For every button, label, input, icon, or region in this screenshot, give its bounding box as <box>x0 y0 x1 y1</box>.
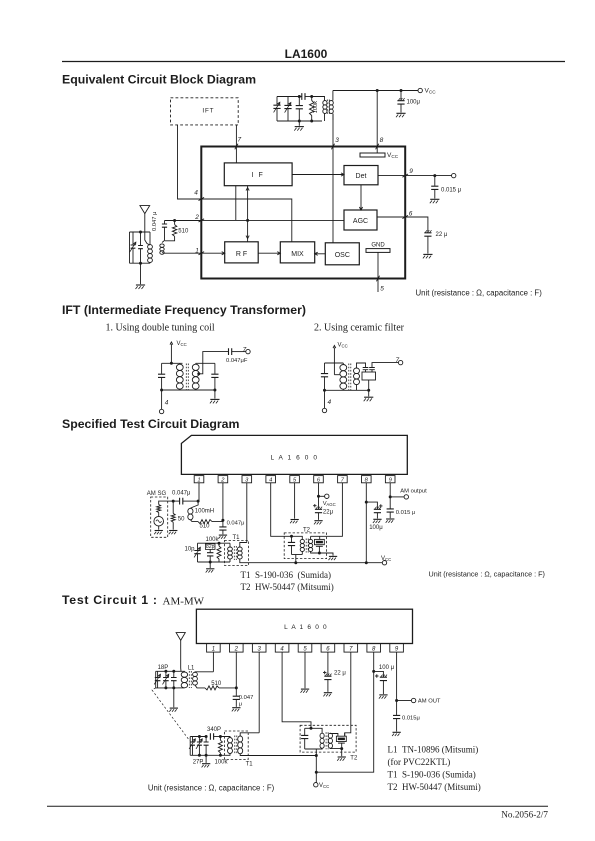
svg-text:1: 1 <box>197 477 200 483</box>
wire IF input drop <box>235 186 237 221</box>
svg-text:VCC: VCC <box>425 88 437 95</box>
pin 9 AM output (specified) <box>389 483 427 499</box>
pin 9 (specified test circuit) <box>385 476 395 484</box>
svg-text:Unit (resistance : Ω, capacita: Unit (resistance : Ω, capacitance : F) <box>429 570 545 579</box>
svg-text:Unit (resistance : Ω, capacita: Unit (resistance : Ω, capacitance : F) <box>148 784 275 793</box>
T2 to Vcc rail drop (specified) <box>295 555 297 563</box>
ground (antenna tank 1) <box>169 688 178 712</box>
footer rule <box>47 805 548 807</box>
svg-text:5: 5 <box>380 286 384 293</box>
svg-text:100k: 100k <box>206 537 220 543</box>
wire pin8: Vcc rail into IC <box>377 91 383 154</box>
svg-text:μ: μ <box>239 701 242 707</box>
arrow AGC to IF <box>246 186 249 221</box>
pin 6 (specified test circuit) <box>314 476 324 484</box>
svg-text:4: 4 <box>194 190 198 197</box>
antenna tank rails (test ckt 1) <box>156 670 178 672</box>
osc tank rails (specified) <box>198 542 231 544</box>
wire pin 4 to T2 (specified) <box>271 483 293 538</box>
T2 secondary (test ckt 1) <box>328 733 341 748</box>
wire pin3: osc tank to OSC block <box>333 114 339 243</box>
block OSC <box>325 243 359 265</box>
IFT dashed box <box>171 98 239 125</box>
svg-text:50: 50 <box>178 517 185 523</box>
svg-text:L1: L1 <box>188 665 195 671</box>
svg-text:0.047μF: 0.047μF <box>226 358 248 364</box>
T1 dashed box (specified) <box>224 535 248 565</box>
pin 6 (test circuit 1) <box>321 644 335 653</box>
capacitor 100u on Vcc rail <box>396 91 421 118</box>
capacitor 100u on pin 8 (test ckt 1) <box>374 665 395 698</box>
svg-text:9: 9 <box>409 168 413 175</box>
Vcc arrow (IFT ckt 2) <box>333 343 348 375</box>
svg-text:3: 3 <box>335 137 339 144</box>
svg-text:4: 4 <box>269 477 272 483</box>
pin 3 (test circuit 1) <box>252 644 266 653</box>
wire pin 1 down (test ckt 1) <box>212 652 214 672</box>
pin 9 (test circuit 1) <box>390 644 404 653</box>
resistor 100k (specified) <box>206 537 222 562</box>
oscillator tank rails <box>277 96 299 98</box>
resistor 510 (test ckt 1) <box>195 681 237 690</box>
pin 4 (test circuit 1) <box>275 644 289 653</box>
IFT1 transformer primary <box>176 363 183 390</box>
capacitor 27p (osc tank 1) <box>193 735 209 766</box>
T2 dashed box (test ckt 1) <box>300 725 358 761</box>
ceramic resonator (T2, specified) <box>315 536 325 554</box>
svg-text:0.047: 0.047 <box>239 695 254 701</box>
block AGC <box>344 210 377 230</box>
svg-text:100μ: 100μ <box>369 525 383 531</box>
svg-text:22μ: 22μ <box>323 510 334 516</box>
svg-text:4: 4 <box>165 400 169 407</box>
ground (antenna tank) <box>136 263 146 289</box>
wire pin5: GND bar out of IC <box>378 252 384 292</box>
pin 4 terminal (IFT ckt 1) <box>159 390 168 414</box>
series capacitor 0.047u (AM SG) <box>172 491 198 505</box>
svg-text:0.015μ: 0.015μ <box>402 716 420 722</box>
antenna coil secondary <box>160 244 164 254</box>
svg-text:8: 8 <box>372 646 376 652</box>
pin 8 (specified test circuit) <box>362 476 372 484</box>
capacitor 22u on pin 6 (specified) <box>313 496 333 524</box>
trimmer capacitor (osc tank 1) <box>189 737 195 756</box>
capacitor 0.047u on pin 2 (specified) <box>218 520 244 539</box>
T1 core (specified) <box>234 546 236 560</box>
T2 capacitor (test ckt 1) <box>301 728 311 749</box>
wire pin1: antenna coil to RF <box>162 247 225 255</box>
wire pin 5 ground (test ckt 1) <box>301 652 310 693</box>
svg-text:8: 8 <box>380 137 384 144</box>
svg-text:AGC: AGC <box>326 502 335 507</box>
svg-text:T1: T1 <box>246 762 254 768</box>
svg-text:Test Circuit 1 :: Test Circuit 1 : <box>62 593 158 607</box>
svg-text:GND: GND <box>371 243 385 249</box>
IFT2 transformer secondary <box>354 368 360 390</box>
pin slash marks on IC boundary <box>199 144 409 282</box>
pin 9 AM OUT (test ckt 1) <box>395 652 441 704</box>
svg-text:22 μ: 22 μ <box>334 671 346 677</box>
internal Vcc bar (pin 8) <box>360 152 399 159</box>
resistor 510 (pin 2) <box>165 221 189 241</box>
header rule and title LA1600 <box>62 47 565 62</box>
pin 6 VAGC terminal <box>317 483 336 507</box>
AGC feedback line (pin 2 net) <box>201 219 344 222</box>
resistor 100k (osc) <box>310 97 320 123</box>
wire pin 7 to T2 (specified) <box>311 483 343 537</box>
wire pin 2 down (test ckt 1) <box>235 652 238 689</box>
svg-text:AM OUT: AM OUT <box>418 699 441 705</box>
ceramic resonator (T2, test ckt 1) <box>336 736 346 750</box>
arrow IF to Det <box>292 173 344 176</box>
svg-text:510: 510 <box>200 524 211 530</box>
wire pin 8 down to Vcc rail (specified) <box>365 483 368 563</box>
capacitor 0.047u (pin 2 input) <box>152 212 167 243</box>
wire pin 8 down (test ckt 1) <box>316 652 375 772</box>
svg-text:(for PVC22KTL): (for PVC22KTL) <box>388 757 451 767</box>
svg-text:VCC: VCC <box>177 341 187 347</box>
IFT1 core <box>186 364 188 391</box>
svg-text:5: 5 <box>303 646 307 652</box>
capacitor 0.015u (test ckt 1) <box>392 701 420 737</box>
svg-text:18P: 18P <box>158 665 169 671</box>
svg-text:7: 7 <box>349 646 353 652</box>
T2 core (specified) <box>306 539 308 553</box>
svg-text:L1 TN-10896 (Mitsumi): L1 TN-10896 (Mitsumi) <box>388 745 479 755</box>
svg-text:100mH: 100mH <box>195 508 214 514</box>
wire pin 7 to T2 (test ckt 1) <box>345 652 351 736</box>
svg-text:7: 7 <box>238 137 242 144</box>
capacitor right (IFT ckt 1) <box>211 363 218 391</box>
ground (osc tank specified) <box>206 562 215 573</box>
svg-text:4: 4 <box>328 399 332 406</box>
pin 2 (specified test circuit) <box>218 476 228 484</box>
ceramic filter (IFT ckt 2) <box>357 357 403 392</box>
svg-text:22 μ: 22 μ <box>436 232 448 238</box>
T2 dashed box (specified) <box>284 528 326 559</box>
L1 bar antenna coil primary <box>178 665 195 688</box>
ground (osc tank) <box>294 121 304 131</box>
svg-text:OSC: OSC <box>335 252 350 259</box>
svg-text:340P: 340P <box>207 727 221 733</box>
pin 4 (specified test circuit) <box>266 476 276 484</box>
IC boundary box (block diagram) <box>201 147 405 279</box>
rails (IFT ckt 2) <box>325 362 344 364</box>
T2 core (test ckt 1) <box>326 732 328 749</box>
svg-text:6: 6 <box>326 646 330 652</box>
T2 primary (specified) <box>292 536 305 554</box>
trimmer 10p <box>185 543 201 562</box>
antenna (test circuit 1) <box>176 633 185 672</box>
svg-text:7: 7 <box>396 357 400 364</box>
inductor 100mH <box>188 501 214 521</box>
wire pin7: IFT to IF <box>236 125 241 163</box>
capacitor 22u on pin 6 <box>423 230 448 258</box>
wire pin 2 down (specified) <box>221 483 224 522</box>
svg-text:VCC: VCC <box>319 783 329 789</box>
T2 primary (test ckt 1) <box>305 728 325 755</box>
L1 core <box>189 671 191 688</box>
arrow RF to MIX <box>258 252 280 255</box>
svg-text:3: 3 <box>258 646 262 652</box>
tap to series capacitor 0.047uF <box>197 346 250 375</box>
ground (osc tank 1) <box>202 755 211 767</box>
series capacitor 340p <box>207 727 222 740</box>
svg-text:100k: 100k <box>313 101 319 114</box>
capacitor 82p (boxed label) <box>205 543 215 563</box>
capacitor 0.047u (test ckt 1) <box>232 688 254 712</box>
svg-text:AGC: AGC <box>353 218 368 225</box>
capacitor left (IFT ckt 1) <box>158 363 165 391</box>
wire pin 4 to T2 (test ckt 1) <box>282 652 312 730</box>
Vcc rail (specified) <box>249 556 392 565</box>
pin 1 (test circuit 1) <box>207 644 221 653</box>
svg-text:0.015 μ: 0.015 μ <box>396 510 415 516</box>
pin 5 (specified test circuit) <box>290 476 300 484</box>
svg-text:9: 9 <box>395 646 399 652</box>
svg-text:I F: I F <box>252 172 265 179</box>
block Det <box>344 166 378 185</box>
section heading: Test Circuit 1 : AM-MW <box>62 593 205 608</box>
block IF (U-IF amp) <box>224 163 292 186</box>
Vcc rail and terminal (top right) <box>333 88 436 95</box>
svg-text:1: 1 <box>195 247 199 254</box>
capacitor (antenna tank) <box>138 231 143 265</box>
svg-text:100μ: 100μ <box>407 100 421 106</box>
svg-text:AM output: AM output <box>400 489 427 495</box>
svg-text:T2 HW-50447 (Mitsumi): T2 HW-50447 (Mitsumi) <box>388 782 481 792</box>
AM SG signal generator <box>147 491 168 537</box>
capacitor (osc tank fixed) <box>296 95 303 123</box>
svg-text:T2: T2 <box>350 756 358 762</box>
wire pin 5 ground (specified) <box>290 483 299 523</box>
antenna coil primary <box>148 232 153 263</box>
IFT2 core <box>349 364 351 391</box>
svg-text:1. Using double tuning coil: 1. Using double tuning coil <box>106 322 215 333</box>
wire pin 1 down (specified) <box>197 483 200 503</box>
svg-text:T2: T2 <box>303 528 311 534</box>
svg-text:2: 2 <box>194 214 199 221</box>
antenna tank rails <box>130 231 151 233</box>
svg-text:Det: Det <box>356 173 367 180</box>
T1 secondary (specified) <box>237 543 248 563</box>
variable capacitor (osc tank) <box>284 97 291 122</box>
pin 7 (test circuit 1) <box>344 644 358 653</box>
arrow Det to AGC <box>359 185 362 210</box>
secondary rails (IFT ckt 1) <box>196 362 215 364</box>
svg-text:510: 510 <box>178 229 189 235</box>
variable capacitor (antenna tank) <box>130 232 136 263</box>
IC package LA1600 (specified test circuit) <box>181 435 407 474</box>
svg-text:4: 4 <box>280 646 284 652</box>
T1 primary (test ckt 1) <box>220 737 232 756</box>
pin 4 terminal (IFT ckt 2) <box>322 390 331 412</box>
pin 7 (specified test circuit) <box>338 476 348 484</box>
trimmer capacitor (antenna tank 1) <box>154 671 160 688</box>
capacitor (antenna tank 1) <box>171 670 177 690</box>
T2 ground (test ckt 1) <box>337 749 346 761</box>
IC package LA1600 (test circuit 1) <box>196 609 412 643</box>
svg-text:1: 1 <box>212 646 215 652</box>
block MIX <box>280 242 314 263</box>
svg-text:Specified Test Circuit Diagram: Specified Test Circuit Diagram <box>62 417 240 431</box>
gang dashed line <box>152 688 190 741</box>
T1 dashed box (test ckt 1) <box>225 731 254 768</box>
wire pin2 external <box>165 214 202 222</box>
svg-text:L A 1 6 0 0: L A 1 6 0 0 <box>284 624 328 631</box>
svg-text:IFT (Intermediate Frequency Tr: IFT (Intermediate Frequency Transformer) <box>62 303 306 317</box>
arrow OSC to MIX <box>315 252 326 255</box>
svg-text:2. Using ceramic filter: 2. Using ceramic filter <box>314 322 405 333</box>
pin 1 (specified test circuit) <box>194 476 204 484</box>
svg-text:IFT: IFT <box>202 107 214 114</box>
Vcc arrow (IFT ckt 1) <box>170 341 187 363</box>
pin 2 (test circuit 1) <box>230 644 244 653</box>
svg-text:100k: 100k <box>215 760 229 766</box>
osc tank rails (test ckt 1) <box>190 736 207 738</box>
svg-text:100 μ: 100 μ <box>379 665 395 671</box>
wire pin 3 down (test ckt 1) <box>258 652 260 733</box>
L1 secondary <box>193 672 214 685</box>
svg-text:27P: 27P <box>193 760 204 766</box>
svg-text:AM-MW: AM-MW <box>163 596 205 608</box>
svg-text:0.047 μ: 0.047 μ <box>152 212 158 231</box>
wire pin9: Det to output terminal <box>378 168 456 178</box>
T1 secondary (test ckt 1) <box>238 733 317 756</box>
capacitor 100u on pin 8 (specified) <box>366 502 383 531</box>
resistor 50 to ground <box>169 500 185 535</box>
T2 secondary (specified) <box>309 536 320 553</box>
svg-text:VCC: VCC <box>338 343 348 349</box>
svg-text:VCC: VCC <box>387 152 399 159</box>
svg-text:T1 S-190-036 (Sumida): T1 S-190-036 (Sumida) <box>388 770 476 780</box>
svg-text:T2 HW-50447 (Mitsumi): T2 HW-50447 (Mitsumi) <box>241 582 334 592</box>
antenna <box>140 206 150 245</box>
osc transformer <box>312 91 334 122</box>
svg-text:10p: 10p <box>185 547 196 553</box>
capacitor left (IFT ckt 2) <box>321 363 328 392</box>
ground (IFT ckt 1) <box>210 390 220 403</box>
T2 ground (specified) <box>319 553 337 560</box>
T1 primary (specified) <box>228 543 233 562</box>
pin 5 (test circuit 1) <box>298 644 312 653</box>
IFT1 transformer secondary <box>192 363 199 390</box>
svg-text:Equivalent Circuit Block Diagr: Equivalent Circuit Block Diagram <box>62 72 256 86</box>
ground (IFT ckt 2) <box>364 390 374 401</box>
resistor 510 (specified) <box>198 520 223 530</box>
svg-text:R F: R F <box>236 251 247 258</box>
IFT2 transformer primary with Vcc tap <box>334 363 346 390</box>
svg-text:T1: T1 <box>233 535 241 541</box>
svg-text:82p: 82p <box>206 544 215 550</box>
resistor 100k (test ckt 1) <box>215 737 229 766</box>
T2 capacitor (specified) <box>288 536 295 554</box>
svg-text:T1 S-190-036 (Sumida): T1 S-190-036 (Sumida) <box>241 570 332 580</box>
svg-text:LA1600: LA1600 <box>285 47 328 61</box>
svg-text:0.015 μ: 0.015 μ <box>441 188 462 194</box>
svg-text:No.2056-2/7: No.2056-2/7 <box>501 810 548 820</box>
svg-text:Unit (resistance : Ω, capacita: Unit (resistance : Ω, capacitance : F) <box>416 289 543 298</box>
svg-text:0.047μ: 0.047μ <box>172 491 191 497</box>
svg-text:510: 510 <box>211 681 222 687</box>
T1 core (test ckt 1) <box>235 736 237 755</box>
variable capacitor (antenna tank 1) <box>163 670 169 690</box>
wire pin4: IFT to MIX <box>178 125 292 242</box>
arrow AGC to RF <box>246 220 249 241</box>
wire pin 3 down (specified) <box>246 483 248 543</box>
Vcc feed node (test ckt 1) <box>314 754 330 789</box>
trimmer capacitor (osc tank left) <box>273 97 280 122</box>
svg-text:AM SG: AM SG <box>147 491 167 497</box>
internal GND bar (pin 5) <box>366 243 390 253</box>
svg-text:6: 6 <box>409 211 413 218</box>
capacitor 22u on pin 6 (test ckt 1) <box>323 652 346 696</box>
capacitor 0.015u on pin 9 (specified) <box>386 497 416 523</box>
svg-text:0.047μ: 0.047μ <box>227 521 245 527</box>
svg-text:L A 1 6 0 0: L A 1 6 0 0 <box>270 455 318 462</box>
capacitor 0.015u on pin 9 <box>430 176 462 204</box>
rails (IFT ckt 1) <box>162 362 183 364</box>
svg-text:7: 7 <box>243 346 247 353</box>
series capacitor (osc feedback) <box>299 93 313 100</box>
wire pin6: AGC to 22u <box>377 211 428 233</box>
wire AM SG output <box>168 500 180 502</box>
pin 8 (test circuit 1) <box>367 644 381 653</box>
svg-text:VCC: VCC <box>381 556 391 562</box>
svg-text:MIX: MIX <box>291 251 304 258</box>
pin 3 (specified test circuit) <box>242 476 252 484</box>
svg-text:2: 2 <box>234 646 239 652</box>
variable capacitor (osc tank 1) <box>196 735 202 757</box>
block RF <box>225 242 259 263</box>
T2 output top wire (test ckt 1) <box>344 733 346 736</box>
